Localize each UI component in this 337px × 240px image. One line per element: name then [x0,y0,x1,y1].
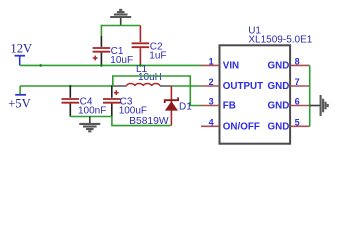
pin 8 GND [268,57,310,72]
svg-text:D1: D1 [179,102,192,113]
wire +5V rail [20,85,114,87]
wire GND bus right of chip [309,65,311,126]
svg-text:GND: GND [268,122,290,133]
capacitor C3 [103,86,147,117]
node dot on 12V rail [39,64,42,67]
svg-text:12V: 12V [10,42,32,56]
node dot C4/+5V [69,85,72,88]
svg-text:VIN: VIN [223,61,239,72]
svg-text:5: 5 [295,117,300,127]
diode D1 (B5819W) [129,86,192,127]
pin 7 GND [268,77,310,92]
svg-text:7: 7 [295,77,300,87]
svg-text:100uF: 100uF [119,105,147,116]
pin 3 FB [201,97,236,112]
ground GND bottom [79,117,100,132]
svg-text:4: 4 [209,117,214,127]
wire C1 top lead [100,25,102,36]
pin 6 GND [268,97,310,112]
svg-text:2: 2 [209,77,214,87]
svg-text:B5819W: B5819W [129,116,169,127]
svg-text:FB: FB [223,101,236,112]
svg-text:ON/OFF: ON/OFF [223,122,260,133]
svg-text:GND: GND [268,101,290,112]
svg-text:1: 1 [209,57,214,67]
svg-text:XL1509-5.0E1: XL1509-5.0E1 [248,34,312,45]
power flag 12V [10,42,32,66]
power flag +5V [8,86,31,110]
ground GND right [310,95,328,116]
svg-text:8: 8 [295,57,300,67]
node dot C1/12V [100,64,103,67]
svg-text:100nF: 100nF [78,105,106,116]
wire gnd net under C4/C3 [70,117,170,126]
pin 1 VIN [201,57,239,72]
node dot C3/L1/+5V [111,85,114,88]
svg-text:6: 6 [295,97,300,107]
svg-text:3: 3 [209,97,214,107]
IC U1 XL1509-5.0E1 body [220,25,313,143]
capacitor C2 [132,26,167,66]
svg-text:1uF: 1uF [149,50,166,61]
ground GND top [110,10,131,26]
svg-text:10uH: 10uH [138,72,162,83]
node dot C2/12V [139,64,142,67]
pin 4 ON/OFF [201,117,260,132]
wire 12V rail to pin1 [20,64,201,66]
wire feedback net: L1 left / +5V up-over to FB pin3 [113,76,201,106]
inductor L1 [112,64,171,86]
svg-text:OUTPUT: OUTPUT [223,81,263,92]
svg-text:GND: GND [268,61,290,72]
capacitor C4 [62,86,107,117]
svg-text:+5V: +5V [8,96,31,110]
svg-text:10uF: 10uF [110,55,133,66]
wire top gnd rail C1-C2 [101,25,140,27]
wire L1/D1 to pin2 [171,85,201,87]
pin 2 OUTPUT [201,77,263,92]
capacitor C1 [93,36,133,66]
pin 5 GND [268,117,310,132]
svg-text:GND: GND [268,81,290,92]
